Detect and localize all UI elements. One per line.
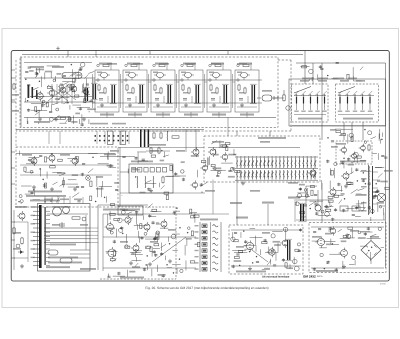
switch box bus wires xyxy=(294,96,374,115)
dots row caption xyxy=(90,123,126,125)
switch coil x317.5 xyxy=(315,91,319,112)
bottom mid-left texture xyxy=(106,204,200,278)
IF stage 5 label below xyxy=(212,114,226,116)
switch coil x370 xyxy=(368,91,372,112)
sync grounds xyxy=(32,185,77,191)
connector pin labels xyxy=(31,206,36,258)
mid wire down xyxy=(120,192,205,194)
test point circle xyxy=(86,176,91,181)
IF stage 1 ground xyxy=(100,103,104,107)
delay line dashed box xyxy=(204,136,320,182)
loudspeaker circle xyxy=(377,193,385,201)
timebase dashed box xyxy=(229,225,303,274)
osc transistors xyxy=(340,144,366,161)
switch coil x296.5 xyxy=(294,91,298,112)
line osc component row xyxy=(132,168,167,173)
switch box labels xyxy=(298,118,373,120)
ladder top label xyxy=(200,219,218,221)
switch coil x362.5 xyxy=(360,91,364,112)
IF stage 3 transistor xyxy=(154,72,166,80)
power transistor C xyxy=(328,226,335,235)
bridge rectifier xyxy=(361,236,381,264)
connector hatch bars xyxy=(140,130,149,148)
under switch box line xyxy=(292,125,385,127)
detector group xyxy=(257,90,290,110)
switch coil x303.5 xyxy=(301,91,305,112)
right mid texture xyxy=(326,129,393,213)
IF stage 4 transistor xyxy=(182,72,194,80)
left frame tick marks xyxy=(11,70,15,258)
IF stage block 5 outline xyxy=(207,70,231,112)
channel switch box II dashed xyxy=(336,84,379,122)
tube text rows xyxy=(46,244,96,270)
IF row lower bus wire xyxy=(92,102,262,104)
osc parts xyxy=(340,144,370,163)
tuner crossing wires xyxy=(30,84,92,104)
transistor TS2 xyxy=(47,88,55,98)
svg-text:Fig. 26. Schema van de GM 2317: Fig. 26. Schema van de GM 2317 (met bijb… xyxy=(145,286,268,290)
IF stage 1 label above xyxy=(99,63,112,65)
switch box II selector arrow xyxy=(338,87,355,94)
socket parts xyxy=(146,130,200,153)
focus oval xyxy=(48,250,58,255)
IF stage 2 label below xyxy=(128,114,142,116)
mid wire y147 extension xyxy=(118,147,204,149)
tuner top wire xyxy=(24,62,92,64)
tuner dark component bars xyxy=(28,85,38,99)
IF stage 2 label above xyxy=(127,63,140,65)
cluster transistor D xyxy=(159,219,167,229)
cluster diagonal wire xyxy=(152,237,186,262)
IF stage 2 ground xyxy=(128,103,132,107)
IF stage block 4 outline xyxy=(179,70,203,112)
sync circuitry texture xyxy=(19,151,120,206)
IF stage 6 transformer xyxy=(250,84,257,104)
mid transistor TS24 xyxy=(191,147,199,157)
frame divider wire xyxy=(102,214,104,271)
connector contact dots xyxy=(95,135,129,141)
line osc coils xyxy=(137,176,154,188)
switch coil x324.5 xyxy=(322,91,326,112)
supply bus wire along top xyxy=(22,54,303,56)
cluster transistor B xyxy=(123,215,131,225)
IF stage 4 label above xyxy=(183,63,196,65)
IF stage 1 parts xyxy=(93,63,118,118)
IF stage 5 transformer xyxy=(222,84,229,104)
IF stage block 6 outline xyxy=(235,70,259,112)
transistor TS4 xyxy=(69,84,77,94)
delay line left parts xyxy=(208,140,240,177)
IF stage 6 ground xyxy=(240,103,244,107)
delay line upper wire xyxy=(208,147,300,149)
IF stage 6 label above xyxy=(239,63,252,65)
IF row upper bus wire xyxy=(92,79,262,81)
timebase bars xyxy=(286,239,292,261)
cluster transistor A xyxy=(105,222,114,233)
tuner transformer S2 xyxy=(83,87,90,102)
timebase transistor C xyxy=(280,238,288,248)
ground row under tuner xyxy=(38,117,86,121)
cluster transistor C xyxy=(142,222,150,232)
mains circles xyxy=(315,205,329,216)
bottom right upper texture xyxy=(295,188,384,221)
power transistor A xyxy=(315,236,324,247)
IF stage 1 transistor xyxy=(98,72,110,80)
mains transformer bars xyxy=(299,203,306,222)
IF stage 3 label below xyxy=(156,114,170,116)
antenna coupling oval xyxy=(62,73,82,79)
cluster transistor F xyxy=(131,243,139,253)
svg-text:44-46: 44-46 xyxy=(380,282,386,285)
switch boxes solid enclosure xyxy=(289,79,386,126)
IF stage 3 parts xyxy=(149,63,174,118)
ladder left pin labels xyxy=(195,225,199,270)
upper right small rects xyxy=(340,206,360,211)
sync box bus wires xyxy=(20,165,112,175)
mid transistor TS25 xyxy=(190,180,197,189)
transistor TS1 xyxy=(35,91,43,101)
transistor TS22 xyxy=(70,156,78,166)
tuner circuitry texture xyxy=(25,63,96,127)
switch ladder rails xyxy=(200,222,221,272)
IF stage 5 label above xyxy=(211,63,224,65)
value label smudges xyxy=(22,63,379,248)
oscillator dashed box xyxy=(336,141,372,164)
power label xyxy=(316,270,338,272)
right transistor TS30 xyxy=(308,168,316,178)
IF stage 3 transformer xyxy=(166,84,173,104)
dashed link bottom xyxy=(16,130,291,132)
beam wires lower xyxy=(70,250,90,258)
right rail wire xyxy=(385,63,387,268)
svg-text:GM 2432: GM 2432 xyxy=(303,275,316,279)
svg-text:Uit voorraad leverbaar: Uit voorraad leverbaar xyxy=(262,275,290,278)
tuner transformer S1 xyxy=(91,83,98,100)
transistor TS3 xyxy=(58,85,66,95)
transistor TS5 xyxy=(82,88,89,97)
top right component row xyxy=(300,62,363,81)
sync separator dashed box xyxy=(16,147,118,207)
IF stage 3 label above xyxy=(155,63,168,65)
IF stage 2 parts xyxy=(121,63,146,118)
IF stage 6 label below xyxy=(240,114,254,116)
delay line top label xyxy=(258,137,286,139)
right transistor TS31 xyxy=(341,171,349,181)
switch ladder rows xyxy=(202,224,218,271)
delay box feed verticals xyxy=(196,180,237,215)
IF stage 6 transistor xyxy=(238,72,250,80)
timebase transistor B xyxy=(267,247,275,257)
deel label under line osc xyxy=(103,209,125,211)
power texture xyxy=(312,227,384,272)
sync text rows xyxy=(26,191,66,202)
IF stage 6 parts xyxy=(233,63,258,118)
connector strip second bar xyxy=(45,207,46,265)
IF strip outer dashed border right xyxy=(290,60,292,131)
connector strip pins xyxy=(33,207,50,266)
channel switch box I dashed xyxy=(292,84,329,122)
power wires xyxy=(311,227,384,268)
IF strip dashed enclosure xyxy=(20,57,278,128)
left column parts xyxy=(13,206,28,270)
outer dashed rail xyxy=(15,60,17,147)
deflection oval xyxy=(60,258,72,263)
timebase wires xyxy=(231,230,301,266)
delay line ground xyxy=(241,181,245,185)
connector strip bar xyxy=(39,205,42,268)
mains wires xyxy=(296,190,385,220)
transistor TS21 xyxy=(47,153,55,163)
mid resistors above line osc xyxy=(146,147,170,154)
mid bus wire xyxy=(16,129,204,131)
IF stage 5 ground xyxy=(212,103,216,107)
switch coil x310.5 xyxy=(308,91,312,112)
mid bus y156 xyxy=(100,154,135,157)
cluster bus wires xyxy=(103,214,196,268)
wire from top to switch boxes 2 xyxy=(312,63,314,84)
IF stage 4 parts xyxy=(177,63,202,118)
right grounds xyxy=(314,184,348,206)
switch box I selector arrow xyxy=(294,87,311,94)
cluster bottom label xyxy=(120,277,144,279)
IF stage 5 transistor xyxy=(210,72,222,80)
right transistor TS32 xyxy=(328,187,336,197)
left edge small parts xyxy=(11,78,19,112)
switch coil x355 xyxy=(353,91,357,112)
second unit left edge xyxy=(98,205,148,270)
line osc parts xyxy=(120,161,186,193)
IF stage 1 label below xyxy=(100,114,114,116)
cluster grounds xyxy=(129,259,172,266)
right mid lower texture xyxy=(296,180,332,214)
IF stage 4 label below xyxy=(184,114,198,116)
mid transistor TS26 xyxy=(200,163,207,172)
vertical wires from switch box II xyxy=(344,122,363,140)
IF stage block 1 outline xyxy=(95,70,119,112)
mid wire under IF xyxy=(16,153,115,155)
power dashed box xyxy=(309,223,386,273)
inter-box vertical wires xyxy=(49,131,129,144)
IF stage 3 ground xyxy=(156,103,160,107)
timebase transistor A xyxy=(244,240,253,251)
connector socket brackets xyxy=(108,131,126,145)
dashed link top xyxy=(278,59,291,61)
transistor TS20 xyxy=(29,156,37,166)
output transformer winding xyxy=(361,165,378,215)
switch coil x340 xyxy=(338,91,342,112)
IF stage 5 parts xyxy=(205,63,230,118)
tube upper parts xyxy=(47,206,88,250)
svg-text:48 V~: 48 V~ xyxy=(317,275,324,278)
IF stage 4 transformer xyxy=(194,84,201,104)
left dashed rail xyxy=(20,57,22,127)
IF stage 4 ground xyxy=(184,103,188,107)
delay line feed transistor xyxy=(208,147,216,157)
IF stage block 2 outline xyxy=(123,70,147,112)
IF stage block 3 outline xyxy=(151,70,175,112)
row of components above switch boxes xyxy=(302,78,357,80)
IF stage 2 transistor xyxy=(126,72,138,80)
cluster dashed enclosure xyxy=(100,207,176,279)
bus tick wires xyxy=(68,50,228,57)
delay line transistor 2 xyxy=(220,152,228,162)
long vertical wire x322 xyxy=(321,63,323,222)
vertical wire x306 xyxy=(305,186,307,222)
cluster transistor E xyxy=(106,247,116,259)
tuner label smudges xyxy=(30,66,64,123)
tuner input wire xyxy=(24,77,95,79)
switch coil x347.5 xyxy=(345,91,349,112)
timebase label inside xyxy=(236,271,266,273)
tuner lower wire xyxy=(24,101,95,103)
wires into tube box from above xyxy=(44,196,83,204)
tick cross above frame xyxy=(56,47,60,51)
top right feed wire xyxy=(296,62,386,64)
schematic border frame xyxy=(11,51,389,281)
wire from top to switch boxes xyxy=(304,50,306,84)
power transistor B xyxy=(339,248,348,259)
IF stage 2 transformer xyxy=(138,84,145,104)
beam wires bundle xyxy=(44,228,98,242)
picture tube unit box xyxy=(38,204,91,272)
tuner bottom bus wire xyxy=(24,117,276,119)
line oscillator dashed box xyxy=(129,164,173,193)
mid region texture xyxy=(122,150,207,200)
wires from IF to delay xyxy=(228,118,270,137)
timebase ground xyxy=(248,267,252,271)
mid wire vertical xyxy=(119,147,121,207)
power ground xyxy=(342,265,346,269)
IF stage 1 transformer xyxy=(110,84,117,104)
feed labels and wires xyxy=(230,197,300,226)
cluster top box xyxy=(118,206,143,215)
tube heater circles xyxy=(53,207,70,216)
delay line chain rows xyxy=(235,157,318,181)
timebase texture xyxy=(231,227,303,271)
